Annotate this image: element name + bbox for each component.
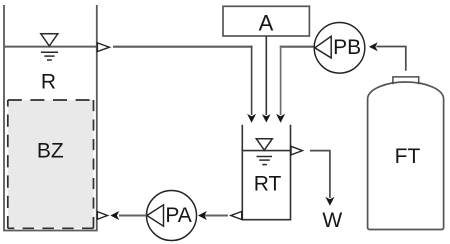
pump PA	[147, 191, 197, 241]
wire RT to W	[310, 151, 330, 198]
zone BZ left dashed edge	[7, 100, 9, 228]
wire FT to PB	[376, 47, 405, 71]
neck FT	[393, 77, 419, 84]
pump PB	[314, 23, 365, 74]
svg-text:W: W	[322, 209, 342, 232]
arrow down into RT (left)	[247, 114, 256, 123]
level symbol RT	[256, 139, 272, 165]
svg-text:PA: PA	[165, 204, 191, 227]
arrow down to W	[325, 197, 334, 206]
wire R to RT (horizontal)	[113, 46, 252, 48]
tank R	[4, 5, 97, 231]
zone BZ	[8, 100, 94, 228]
nozzle RT right	[291, 146, 302, 155]
wire A to RT (middle)	[265, 36, 267, 115]
wire PA to R	[119, 215, 147, 217]
svg-text:R: R	[41, 70, 56, 93]
tank RT	[242, 125, 290, 220]
zone BZ right dashed edge	[93, 100, 95, 228]
nozzle RT left	[231, 212, 242, 220]
box A	[223, 6, 309, 36]
arrow into R	[110, 211, 119, 220]
zone BZ bottom dashed edge	[8, 227, 94, 229]
arrow down into RT (right)	[276, 114, 285, 123]
svg-text:PB: PB	[333, 36, 361, 59]
zone BZ top dashed edge	[8, 99, 94, 101]
nozzle R bottom-right	[97, 212, 107, 220]
nozzle R top-right	[97, 43, 109, 52]
wire down into RT (right leg)	[280, 46, 282, 116]
svg-text:BZ: BZ	[37, 140, 64, 163]
level symbol R	[41, 34, 58, 60]
arrow into PA	[198, 211, 207, 220]
svg-text:A: A	[259, 10, 274, 35]
arrow into PB	[369, 42, 378, 51]
svg-text:FT: FT	[395, 145, 421, 168]
wire down into RT (left leg)	[251, 46, 253, 116]
arrow down into RT (middle)	[262, 114, 271, 122]
wire RT to PA	[204, 215, 228, 217]
level line R	[4, 46, 97, 48]
wire PB to RT (horizontal)	[280, 46, 314, 48]
svg-text:RT: RT	[254, 173, 282, 196]
level line RT	[242, 150, 290, 152]
tank FT	[368, 82, 444, 230]
